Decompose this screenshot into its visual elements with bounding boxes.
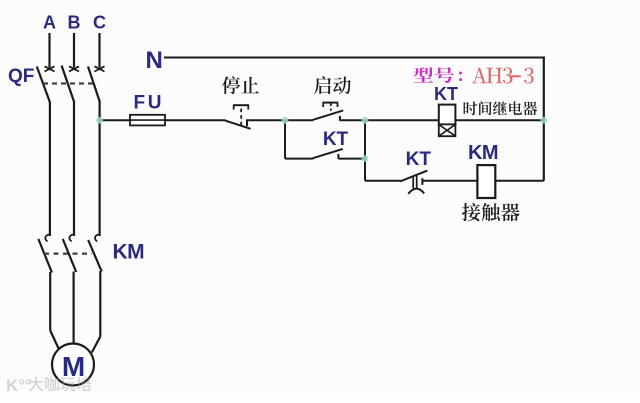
svg-text:KT: KT: [406, 149, 432, 170]
svg-text:QF: QF: [8, 66, 34, 87]
svg-text:N: N: [146, 47, 163, 74]
svg-text:C: C: [93, 13, 106, 33]
svg-text:KT: KT: [323, 129, 349, 150]
svg-text:KM: KM: [113, 241, 145, 264]
svg-text:K°°: K°°: [6, 376, 32, 395]
svg-text:B: B: [68, 13, 81, 33]
svg-text:KT: KT: [434, 84, 458, 104]
svg-text:M: M: [62, 351, 85, 382]
svg-text:KM: KM: [468, 142, 498, 164]
svg-text:A: A: [43, 13, 56, 33]
svg-text:FU: FU: [134, 93, 165, 114]
